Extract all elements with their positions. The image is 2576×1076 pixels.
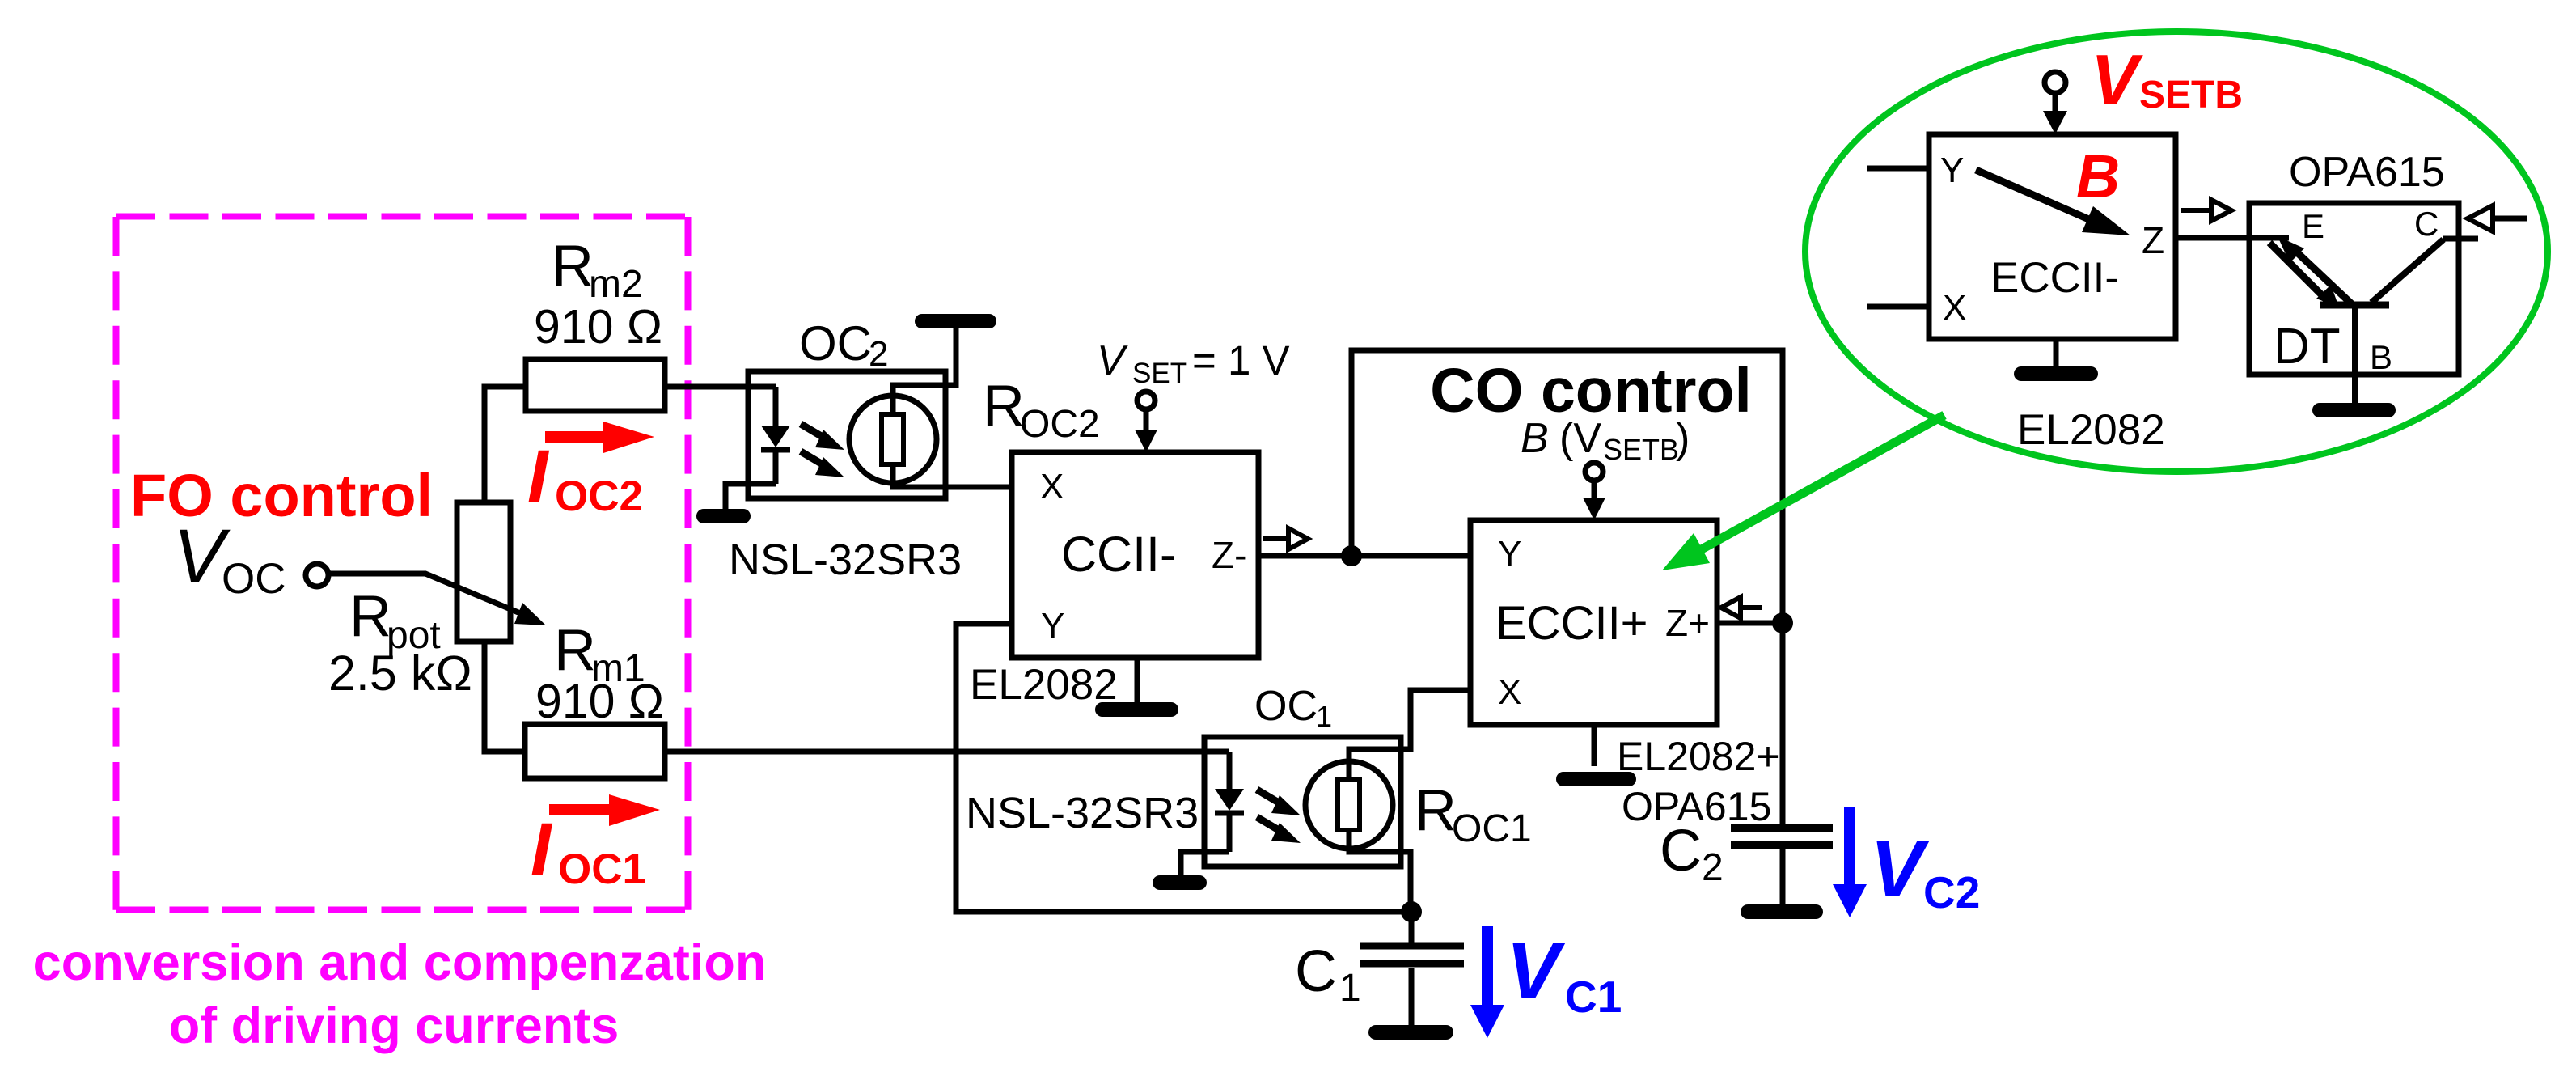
ground (CCII-) <box>1102 658 1171 710</box>
wire X stub (ECCII-) <box>1867 304 1929 310</box>
svg-text:DT: DT <box>2274 319 2341 375</box>
svg-text:2: 2 <box>1702 846 1724 889</box>
resistor Rm2 <box>526 359 665 411</box>
label EL2082 (ECCII-) <box>2017 406 2165 454</box>
pin X (ECCII-) <box>1943 288 1966 328</box>
svg-text:OC: OC <box>1254 683 1318 730</box>
green arrow to ECCII+ <box>1662 415 1944 570</box>
svg-text:OC: OC <box>799 316 872 371</box>
pin Y (CCII-) <box>1041 606 1064 646</box>
svg-text:EL2082: EL2082 <box>970 661 1118 709</box>
label B gain (red) <box>2076 142 2120 210</box>
ground (OC1 LED) <box>1160 875 1199 890</box>
label VC1 <box>1506 926 1622 1022</box>
label FO control <box>130 462 433 529</box>
label ROC1 <box>1415 778 1532 850</box>
capacitor C2 <box>1731 828 1833 904</box>
svg-text:I: I <box>531 808 553 891</box>
voltage arrow VC2 <box>1833 807 1867 917</box>
wire pot top to Rm2 <box>484 387 526 502</box>
svg-text:conversion and compenzation: conversion and compenzation <box>33 934 767 991</box>
svg-text:ECCII-: ECCII- <box>1990 254 2119 302</box>
label NSL-32SR3 (OC2) <box>729 536 962 584</box>
wire Z- to node <box>1258 553 1351 559</box>
svg-text:X: X <box>1040 467 1064 506</box>
svg-text:of driving currents: of driving currents <box>169 998 620 1054</box>
wire Rm2 to OC2 <box>665 384 776 390</box>
svg-text:X: X <box>1498 672 1521 712</box>
svg-text:910 Ω: 910 Ω <box>534 300 662 354</box>
LED of OC2 <box>761 387 790 484</box>
label Rpot <box>349 584 441 657</box>
label C2 <box>1660 819 1724 889</box>
svg-text:910 Ω: 910 Ω <box>535 675 664 728</box>
svg-text:EL2082+: EL2082+ <box>1617 734 1780 779</box>
feedback wire over the top <box>1351 350 1783 824</box>
label OPA615 (ECCII+) <box>1622 784 1771 829</box>
svg-text:OC2: OC2 <box>1020 403 1100 446</box>
svg-text:ECCII+: ECCII+ <box>1495 597 1648 650</box>
transistor DT box <box>2249 203 2459 375</box>
terminal VSET <box>1135 392 1157 452</box>
pin B (DT) <box>2370 338 2392 376</box>
svg-text:CCII-: CCII- <box>1061 527 1176 582</box>
ground (C1) <box>1376 1025 1446 1040</box>
svg-text:V: V <box>1870 824 1930 914</box>
svg-text:OPA615: OPA615 <box>2289 149 2445 196</box>
svg-text:Y: Y <box>1498 534 1521 574</box>
svg-text:I: I <box>527 435 550 518</box>
svg-text:1: 1 <box>1316 700 1332 733</box>
voltage arrow VC1 <box>1470 926 1504 1038</box>
terminal B control <box>1583 463 1605 520</box>
label ECCII+ <box>1495 597 1648 650</box>
ground (C2) <box>1748 904 1816 919</box>
svg-text:EL2082: EL2082 <box>2017 406 2165 454</box>
svg-text:B: B <box>1521 415 1549 462</box>
dashed control-block box <box>116 217 688 911</box>
svg-text:NSL-32SR3: NSL-32SR3 <box>729 536 962 584</box>
svg-text:R: R <box>552 234 594 299</box>
label VSET = 1 V <box>1097 337 1290 389</box>
base wire to ground (DT) <box>2320 308 2388 410</box>
svg-text:OC1: OC1 <box>558 845 646 893</box>
svg-text:C: C <box>2414 205 2439 243</box>
label EL2082 (CCII-) <box>970 661 1118 709</box>
label OC1 <box>1254 683 1332 733</box>
collector line (DT) <box>2371 239 2478 303</box>
wire Rm1 to OC1 <box>665 749 1229 755</box>
svg-text:R: R <box>349 584 391 649</box>
svg-text:(V: (V <box>1559 415 1601 462</box>
wire pot bottom to Rm1 <box>484 642 525 752</box>
svg-text:2.5 kΩ: 2.5 kΩ <box>328 646 472 701</box>
wire ECCII+ X to OC1 photoresistor top <box>1349 690 1470 780</box>
svg-text:C: C <box>1660 819 1702 883</box>
wire OC2 photoresistor top to ground <box>893 328 956 414</box>
ground (OC2 top) <box>922 314 989 328</box>
label IOC2 <box>527 435 643 520</box>
terminal VOC <box>306 564 328 587</box>
ground (ECCII+) <box>1563 725 1629 779</box>
svg-text:OC1: OC1 <box>1452 807 1532 850</box>
wire OC1 photoresistor bottom to node C1 <box>1349 830 1411 912</box>
wire Z to DT emitter <box>2176 235 2289 241</box>
arrow into C (DT) <box>2468 205 2527 231</box>
wire Z+ to node <box>1717 621 1783 626</box>
svg-text:= 1 V: = 1 V <box>1192 337 1290 383</box>
arrow out of Z (ECCII-) <box>2181 200 2231 221</box>
label OC2 <box>799 316 888 374</box>
label ROC2 <box>983 374 1100 446</box>
pin X (ECCII+) <box>1498 672 1521 712</box>
wire Y stub (ECCII-) <box>1867 166 1929 172</box>
label Rm2 <box>552 234 643 306</box>
label ECCII- <box>1990 254 2119 302</box>
photoresistor of OC1 <box>1305 761 1393 849</box>
svg-text:R: R <box>554 618 596 683</box>
svg-text:): ) <box>1676 415 1690 462</box>
label C1 <box>1295 939 1361 1010</box>
wire OC2 LED cathode to ground <box>725 484 776 509</box>
pin C (DT) <box>2414 205 2439 243</box>
svg-text:Z-: Z- <box>1212 534 1246 576</box>
svg-text:E: E <box>2302 207 2324 245</box>
base bar (DT) <box>2320 302 2389 309</box>
pin Z+ (ECCII+) <box>1665 602 1710 644</box>
arrow into Z+ <box>1721 597 1762 618</box>
optocoupler OC2 box <box>748 371 945 498</box>
wire OC2 photoresistor bottom to CCII- X <box>893 464 1012 487</box>
terminal VSETB <box>2043 72 2067 134</box>
svg-text:C2: C2 <box>1923 867 1980 917</box>
svg-text:Z+: Z+ <box>1665 602 1710 644</box>
source VOC label <box>173 514 286 603</box>
label B (VSETB) <box>1521 415 1690 466</box>
label EL2082+ <box>1617 734 1780 779</box>
svg-text:X: X <box>1943 288 1966 328</box>
value 910 Ohm (Rm2) <box>534 300 662 354</box>
svg-text:R: R <box>1415 778 1457 843</box>
label CO control <box>1430 356 1752 426</box>
potentiometer Rpot body <box>457 502 510 642</box>
svg-text:R: R <box>983 374 1025 438</box>
svg-text:V: V <box>1097 337 1128 384</box>
label Rm1 <box>554 618 645 690</box>
resistor Rm1 <box>525 724 665 778</box>
capacitor C1 <box>1360 912 1464 1025</box>
pin E (DT) <box>2302 207 2324 245</box>
node C (Z+ node) <box>1772 612 1793 633</box>
svg-text:B: B <box>2370 338 2392 376</box>
svg-text:SET: SET <box>1132 358 1187 389</box>
node A (Z- node) <box>1341 545 1362 566</box>
optocoupler OC1 box <box>1204 737 1401 866</box>
label OPA615 (DT) <box>2289 149 2445 196</box>
svg-text:2: 2 <box>869 334 888 374</box>
wire node to ECCII+ Y <box>1351 553 1470 559</box>
svg-text:B: B <box>2076 142 2120 210</box>
label CCII- <box>1061 527 1176 582</box>
gain arrow Y to Z <box>1976 170 2130 235</box>
pin X (CCII-) <box>1040 467 1064 506</box>
current arrow IOC1 <box>549 794 660 826</box>
ground (OC2 LED) <box>704 509 743 523</box>
wire OC1 LED cathode to ground <box>1181 852 1229 875</box>
light arrows OC1 <box>1257 790 1283 832</box>
wiper arrowhead of Rpot <box>514 603 546 625</box>
wire VOC to wiper <box>328 574 524 615</box>
svg-text:1: 1 <box>1339 967 1361 1010</box>
node B (C1 node) <box>1401 901 1422 922</box>
svg-text:C: C <box>1295 939 1337 1004</box>
label NSL-32SR3 (OC1) <box>966 789 1199 837</box>
label DT <box>2274 319 2341 375</box>
pin Y (ECCII-) <box>1940 150 1964 190</box>
label VC2 <box>1870 824 1980 917</box>
caption: conversion and compenzation of driving currents <box>33 934 767 1054</box>
photoresistor of OC2 <box>849 396 937 483</box>
green highlight ellipse <box>1805 32 2548 472</box>
svg-text:NSL-32SR3: NSL-32SR3 <box>966 789 1199 837</box>
value 910 Ohm (Rm1) <box>535 675 664 728</box>
svg-text:Y: Y <box>1940 150 1964 190</box>
wire CCII- Y down and along bottom <box>956 624 1411 912</box>
label IOC1 <box>531 808 646 893</box>
svg-text:V: V <box>2091 40 2143 120</box>
current conveyor ECCII- box <box>1929 134 2176 339</box>
pin Z (ECCII-) <box>2142 219 2164 261</box>
pin Y (ECCII+) <box>1498 534 1521 574</box>
svg-text:OC2: OC2 <box>555 472 643 520</box>
current conveyor ECCII+ box <box>1470 520 1717 725</box>
ground (ECCII-) <box>2021 339 2091 374</box>
svg-text:V: V <box>1506 926 1566 1016</box>
current arrow IOC2 <box>545 422 654 453</box>
svg-text:C1: C1 <box>1565 972 1622 1022</box>
pin Z- (CCII-) <box>1212 534 1246 576</box>
label VSETB (red) <box>2091 40 2243 120</box>
LED of OC1 <box>1215 752 1244 852</box>
arrow out of Z- <box>1263 528 1308 549</box>
svg-text:OC: OC <box>222 555 286 603</box>
value 2.5 kOhm <box>328 646 472 701</box>
current conveyor CCII- box <box>1012 452 1258 658</box>
svg-text:SETB: SETB <box>2139 74 2243 116</box>
svg-text:Z: Z <box>2142 219 2164 261</box>
emitter double line (DT) <box>2269 236 2352 307</box>
svg-text:Y: Y <box>1041 606 1064 646</box>
svg-text:SETB: SETB <box>1603 433 1679 466</box>
light arrows OC2 <box>801 424 827 467</box>
